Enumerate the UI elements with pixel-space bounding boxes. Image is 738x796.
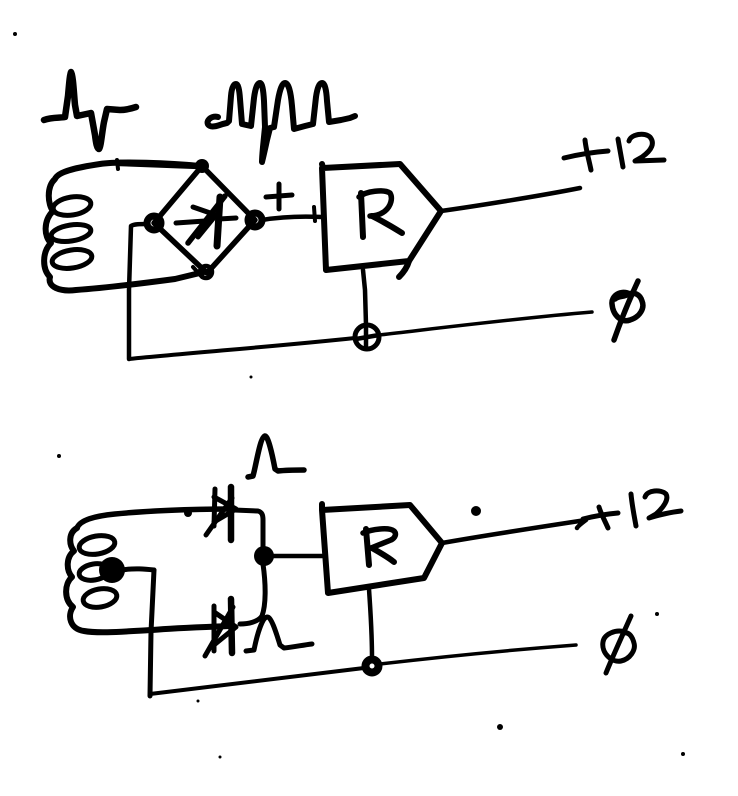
- T2 loop 3: [82, 586, 119, 610]
- dot above output wire: [471, 506, 481, 516]
- node dot (bottom circuit): [254, 546, 274, 566]
- waveform rectified pulses (top-middle): [208, 83, 355, 162]
- bridge bottom node: [200, 266, 212, 278]
- wire center tap to corner: [121, 569, 154, 570]
- plus polarity label: [266, 195, 292, 197]
- waveform pulse right of D2: [246, 617, 312, 651]
- pentagon corner overshoot: [399, 261, 409, 277]
- diode symbol inside bridge: [176, 221, 205, 223]
- bridge top node: [195, 159, 209, 173]
- wire regulator output to +12: [441, 188, 580, 211]
- T2 loop 2: [78, 562, 110, 583]
- diode D1: [214, 489, 215, 526]
- wire coil top to bridge top node: [120, 163, 200, 166]
- stray speck lower middle: [219, 756, 222, 759]
- T2 center tap dot: [99, 557, 125, 583]
- bridge right node: [248, 213, 262, 227]
- stray speck top-left: [13, 32, 17, 36]
- tick on coil top wire: [117, 160, 118, 169]
- transformer T2 coil outline: [77, 509, 229, 528]
- wire center tap down: [150, 570, 154, 696]
- stray speck between circuits: [57, 454, 61, 458]
- wire bottom return to junction (bottom): [150, 668, 364, 694]
- label R inside U1: [361, 193, 363, 237]
- T1 loop 1: [52, 194, 92, 218]
- wire node to regulator: [272, 554, 322, 559]
- regulator U1 pentagon (top): [322, 164, 441, 270]
- label +12 (top): [564, 151, 608, 158]
- stray speck near phi (bottom): [655, 612, 659, 616]
- T1 loop 2: [50, 222, 92, 244]
- wire bridge left node to lower-left corner: [129, 224, 148, 359]
- tick at regulator input: [314, 207, 315, 221]
- stray speck near bottom corner: [197, 700, 200, 703]
- transformer T1 coil outline: [44, 163, 204, 291]
- wire junction to phi (top): [379, 312, 592, 335]
- wire regulator ground down: [363, 270, 366, 325]
- check stroke at bottom node: [193, 267, 202, 277]
- wire bottom return to junction: [129, 338, 355, 359]
- bridge rectifier BR1 diamond: [154, 166, 255, 273]
- diode D2: [212, 606, 217, 651]
- stray speck below bottom circuit: [497, 724, 503, 730]
- label +12 (bottom): [583, 513, 618, 519]
- wire regulator output to +12 (bottom): [442, 520, 586, 543]
- stray speck above bottom wire: [250, 376, 253, 379]
- label R inside U2: [366, 529, 369, 565]
- waveform input pulse (top-left): [44, 72, 136, 149]
- stray speck bottom-right: [681, 752, 685, 756]
- junction circled-plus: [355, 325, 379, 349]
- wire regulator ground down (bottom): [369, 589, 372, 658]
- T2 loop 1: [78, 533, 117, 557]
- wire bridge right node to regulator: [262, 217, 322, 220]
- label phi (top): [614, 281, 638, 340]
- junction circle (bottom): [366, 660, 379, 673]
- T1 loop 3: [51, 247, 93, 271]
- bridge left node: [147, 216, 161, 230]
- regulator U2 pentagon (bottom): [322, 504, 442, 593]
- wire D1 to node: [234, 510, 263, 548]
- wire node down to D2: [240, 564, 265, 624]
- wire junction to phi (bottom): [380, 645, 576, 664]
- label phi (bottom): [606, 616, 631, 673]
- waveform pulse above D1: [248, 436, 304, 477]
- dot on wire to D1: [184, 509, 192, 517]
